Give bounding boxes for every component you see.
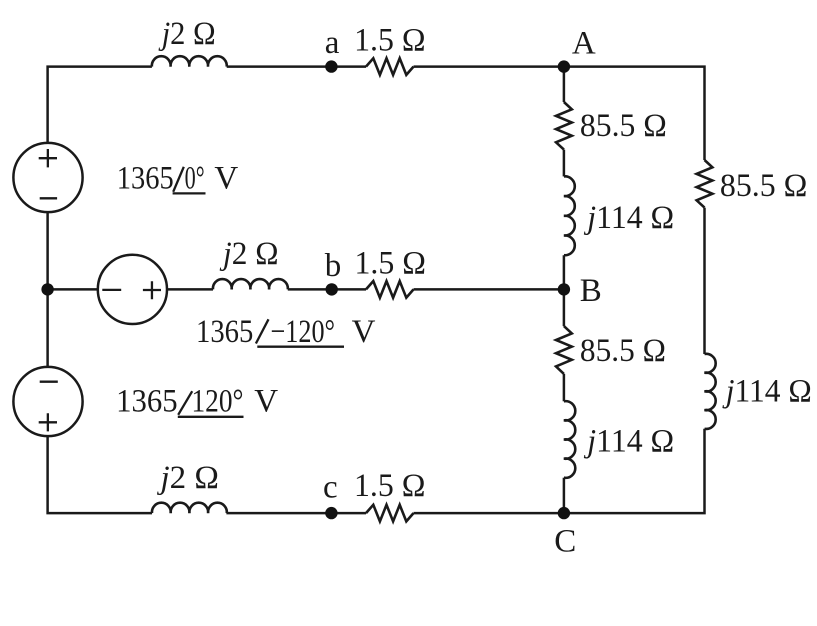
wire top-right corner bbox=[414, 67, 705, 160]
resistor 85.5 ohm (branch A-B) bbox=[556, 102, 572, 150]
node b bbox=[326, 283, 338, 295]
source Van minus sign bbox=[40, 197, 57, 199]
svg-text:−120°: −120° bbox=[271, 314, 336, 350]
svg-text:0°: 0° bbox=[185, 161, 205, 197]
wire bottom middle bbox=[226, 512, 366, 515]
wire bottom-left corner bbox=[48, 436, 152, 513]
svg-text:1.5 Ω: 1.5 Ω bbox=[354, 23, 426, 59]
inductor j114 ohm (branch A-B) bbox=[564, 176, 575, 255]
resistor 85.5 ohm (branch B-C) bbox=[556, 326, 572, 374]
svg-text:c: c bbox=[323, 470, 338, 506]
wire through node B bbox=[563, 255, 566, 326]
svg-text:B: B bbox=[580, 273, 602, 309]
resistor 1.5 ohm (top) bbox=[366, 58, 414, 75]
svg-text:V: V bbox=[352, 314, 376, 350]
wire top-left corner bbox=[48, 67, 152, 144]
svg-text:j2 Ω: j2 Ω bbox=[158, 16, 216, 52]
node c bbox=[325, 507, 337, 519]
resistor 85.5 ohm (right branch) bbox=[697, 160, 713, 208]
wire junction to middle source bbox=[48, 288, 98, 291]
wire branch B-C between resistor and inductor bbox=[563, 374, 566, 401]
wire branch A-B between resistor and inductor bbox=[563, 150, 566, 177]
wire top middle bbox=[227, 65, 366, 68]
svg-text:85.5 Ω: 85.5 Ω bbox=[580, 333, 666, 369]
source Vcn plus sign bbox=[39, 413, 57, 431]
svg-text:j114 Ω: j114 Ω bbox=[722, 374, 812, 410]
svg-text:120°: 120° bbox=[192, 383, 244, 419]
angle slash of 1365/120 bbox=[178, 391, 192, 415]
svg-text:C: C bbox=[554, 523, 576, 559]
angle underline of 1365/0 bbox=[173, 192, 206, 194]
source Vcn circle 1365/120 bbox=[13, 367, 82, 436]
node B bbox=[558, 283, 570, 295]
wire right middle bbox=[703, 208, 706, 354]
svg-text:j2 Ω: j2 Ω bbox=[219, 236, 278, 272]
node n junction bbox=[41, 283, 53, 295]
wire middle bbox=[288, 288, 366, 291]
svg-text:a: a bbox=[325, 25, 340, 61]
svg-text:V: V bbox=[214, 161, 238, 197]
svg-text:1365: 1365 bbox=[196, 314, 253, 350]
angle slash of 1365/0 bbox=[173, 167, 184, 192]
svg-text:85.5 Ω: 85.5 Ω bbox=[720, 168, 808, 204]
svg-text:j114 Ω: j114 Ω bbox=[583, 424, 674, 460]
inductor L-c j2 (bottom) bbox=[152, 503, 227, 513]
wire bottom-right corner bbox=[414, 429, 705, 513]
svg-text:j2 Ω: j2 Ω bbox=[157, 460, 219, 496]
angle underline of 1365/-120 bbox=[257, 346, 344, 348]
resistor 1.5 ohm (middle) bbox=[366, 281, 414, 298]
wire left between sources bbox=[46, 212, 49, 367]
source Van plus sign bbox=[39, 149, 57, 167]
source Van circle 1365/0 bbox=[13, 143, 82, 212]
svg-text:1.5 Ω: 1.5 Ω bbox=[355, 245, 427, 281]
node A bbox=[558, 60, 570, 72]
source Vbn plus sign bbox=[143, 281, 161, 299]
svg-text:1.5 Ω: 1.5 Ω bbox=[354, 468, 426, 504]
wire middle source to inductor bbox=[167, 288, 213, 291]
svg-text:V: V bbox=[254, 383, 278, 419]
wire node A down bbox=[563, 67, 566, 102]
wire to node C bbox=[563, 478, 566, 513]
node a bbox=[325, 60, 337, 72]
svg-text:85.5 Ω: 85.5 Ω bbox=[580, 108, 667, 144]
inductor j114 ohm (right branch) bbox=[705, 354, 716, 429]
angle slash of 1365/-120 bbox=[256, 319, 269, 343]
source Vbn circle 1365/-120 bbox=[98, 255, 167, 324]
svg-text:A: A bbox=[572, 25, 596, 61]
node C bbox=[558, 507, 570, 519]
inductor L-a j2 (top) bbox=[152, 56, 227, 66]
svg-text:b: b bbox=[325, 248, 342, 284]
svg-text:1365: 1365 bbox=[116, 383, 178, 419]
angle underline of 1365/120 bbox=[178, 416, 244, 418]
source Vbn minus sign bbox=[102, 289, 121, 291]
resistor 1.5 ohm (bottom) bbox=[366, 505, 414, 522]
source Vcn minus sign bbox=[40, 381, 58, 383]
inductor L-b j2 (middle) bbox=[213, 279, 288, 289]
svg-text:j114 Ω: j114 Ω bbox=[583, 200, 674, 236]
inductor j114 ohm (branch B-C) bbox=[564, 401, 575, 478]
svg-text:1365: 1365 bbox=[117, 161, 174, 197]
wire middle to node B bbox=[414, 288, 564, 291]
